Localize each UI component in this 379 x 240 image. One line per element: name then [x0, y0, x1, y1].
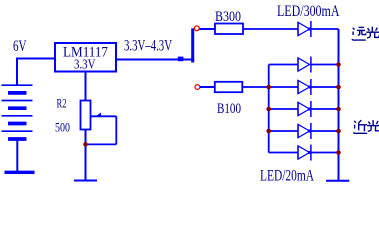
junction left bus row C	[266, 107, 271, 112]
wire row B cathode	[311, 86, 339, 88]
wire regulator adjust pin down	[85, 72, 87, 101]
LED D6 (row E)	[298, 145, 311, 161]
wire regulator output	[116, 59, 194, 61]
resistor B100 body	[215, 82, 243, 92]
wire 6V node to regulator input	[16, 58, 55, 60]
ground (right bus)	[326, 180, 349, 182]
wire row C anode	[269, 108, 298, 110]
LED D5 (row D)	[298, 123, 311, 139]
svg-text:3.3V–4.3V: 3.3V–4.3V	[124, 37, 173, 54]
svg-text:LED/300mA: LED/300mA	[277, 3, 340, 20]
wire terminal to B300	[200, 28, 216, 30]
wire B100 terminal to body	[200, 86, 215, 88]
wire row D cathode	[311, 130, 339, 132]
svg-text:3.3V: 3.3V	[74, 58, 96, 73]
svg-text:6V: 6V	[13, 38, 27, 55]
wire row D anode	[269, 130, 298, 132]
wire LED1 cathode to right bus	[311, 28, 339, 30]
node marker on output wire	[178, 57, 184, 62]
wire B100 to left bus and LED row B	[242, 86, 298, 88]
wire left bus (rows A-E)	[268, 65, 270, 153]
resistor B300 body	[215, 24, 243, 35]
switch terminal (bottom, to B100)	[195, 85, 200, 90]
ground (pot)	[74, 180, 97, 182]
battery negative end bar	[5, 171, 35, 174]
junction right bus row E	[336, 150, 341, 155]
switch terminal (top, to B300)	[194, 26, 199, 31]
wire row E cathode	[311, 152, 339, 154]
junction right bus row C	[336, 107, 341, 112]
junction left bus row B	[266, 85, 271, 90]
wire row C cathode	[311, 108, 339, 110]
battery BT1 plates	[2, 85, 33, 139]
potentiometer R2 body	[81, 101, 91, 130]
LED D4 (row C)	[298, 101, 311, 117]
LED D1 (300mA)	[298, 21, 311, 37]
switch S1 blade	[191, 28, 194, 62]
wire B300 to LED1	[243, 28, 298, 30]
LED D2 (row A)	[298, 57, 311, 73]
svg-text:LED/20mA: LED/20mA	[260, 168, 314, 185]
svg-text:R2: R2	[57, 97, 67, 111]
wire battery positive stem	[16, 59, 18, 86]
potentiometer wiper arrow	[91, 115, 117, 117]
svg-text:500: 500	[55, 121, 70, 135]
LED D3 (row B)	[298, 79, 311, 95]
wire right bus (top to ground)	[338, 29, 340, 181]
wire row A anode	[269, 64, 298, 66]
wire wiper loop down	[115, 116, 117, 144]
label 近光 (low beam)	[353, 120, 367, 133]
regulator U1 LM1117 box	[55, 43, 116, 72]
wire wiper loop to stem	[86, 143, 117, 145]
junction right bus row A	[336, 62, 341, 67]
junction left bus row D	[266, 129, 271, 134]
wire row A cathode	[311, 64, 339, 66]
svg-text:B100: B100	[217, 101, 241, 117]
wire pot bottom to ground	[85, 130, 87, 181]
junction right bus row D	[336, 129, 341, 134]
junction right bus row B	[336, 85, 341, 90]
wire battery negative stem	[16, 139, 18, 172]
wire row E anode	[269, 152, 298, 154]
junction wiper/stem	[83, 142, 88, 147]
